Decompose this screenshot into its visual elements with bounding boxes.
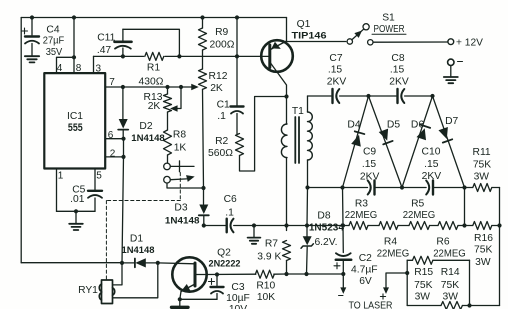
T1 primary lead top [286,97,288,125]
C3 polarity + [209,279,215,285]
svg-text:POWER: POWER [374,24,405,35]
svg-text:5: 5 [96,171,102,182]
diode D2 1N4148 [118,87,128,139]
svg-text:2KV: 2KV [360,172,380,183]
junction D3 top [201,186,205,190]
+12V terminal [448,39,454,45]
capacitor C2 [336,226,351,275]
label C2 value [351,264,378,275]
diode D7 [433,96,465,188]
svg-text:R4: R4 [384,236,397,247]
pin 3 stub [93,56,95,73]
ground below C5 [69,211,83,230]
transistor Q2 circle [172,257,206,291]
svg-text:.1: .1 [217,111,226,122]
svg-text:D1: D1 [130,234,143,245]
label C10 [422,147,441,158]
label D3 part [165,214,200,225]
svg-text:6V: 6V [359,276,372,287]
svg-text:1N4148: 1N4148 [165,214,200,225]
laser minus sign [339,295,344,297]
svg-text:22MEG: 22MEG [433,248,466,259]
label C9 value [362,159,377,170]
wire D5 node to C10 [402,187,426,189]
junction pin2 rail [121,155,125,159]
label R10 [256,281,275,292]
wire pin2 rail down [122,157,124,263]
wire D7 node down [464,188,466,226]
svg-text:T1: T1 [292,106,304,117]
svg-text:R3: R3 [355,198,368,209]
label C10 rating [422,171,442,182]
wire pin1-C5 bottom [57,210,96,212]
label D2 [139,121,152,132]
label R14 [441,267,460,278]
svg-text:200Ω: 200Ω [210,40,235,51]
svg-text:C7: C7 [329,53,342,64]
svg-text:8: 8 [76,63,82,74]
junction secondary bottom [305,185,309,189]
svg-text:D2: D2 [139,121,152,132]
svg-text:.01: .01 [70,194,85,205]
svg-text:.1: .1 [225,207,234,218]
wire rail corner to emitter node [286,18,288,42]
wire C3 bottom to emitter gnd [180,298,217,300]
label TO LASER [349,300,393,309]
T1 core [295,117,299,163]
Q1 emitter lead [271,41,287,52]
junction C1 rail [235,15,239,19]
label R1 [147,63,160,74]
pin 5 stub [94,169,96,191]
Q2 collector row [207,273,256,275]
svg-text:C2: C2 [359,253,372,264]
relay contact arm arrow [170,173,195,182]
svg-text:C1: C1 [217,99,230,110]
svg-text:1: 1 [58,171,64,182]
label C4 [46,24,59,35]
svg-text:2K: 2K [148,101,161,112]
svg-text:D7: D7 [445,116,458,127]
svg-text:75K: 75K [474,245,492,256]
Q2 base bar [194,263,197,286]
T1 secondary lead top [307,96,309,112]
junction box bottom right [467,303,471,307]
svg-text:2: 2 [110,149,116,160]
svg-text:R11: R11 [473,147,491,158]
wire D4 node down [342,188,345,226]
resistor R15 [407,256,469,264]
junction D8 top [305,223,309,227]
resistor R4 [379,222,409,230]
junction D3 bottom [202,223,206,227]
label POWER [374,24,405,35]
label D8 voltage [314,237,337,248]
capacitor C8 [398,89,405,103]
wire relay node to D1 [122,262,135,264]
label R1 value [139,77,164,88]
junction D8 bottom [304,272,308,276]
junction R9 top rail [200,15,204,19]
label R12 value [210,83,223,94]
svg-text:S1: S1 [382,13,395,24]
wire C9 to D5 node [375,187,402,189]
svg-text:.15: .15 [328,64,343,75]
svg-text:R7: R7 [265,238,278,249]
svg-text:3W: 3W [474,172,490,183]
svg-text:D3: D3 [174,202,187,213]
svg-text:IC1: IC1 [67,111,83,122]
svg-text:+ 12V: + 12V [456,37,483,48]
label D8 [317,210,330,221]
resistor R6 [438,222,465,230]
pin 4 label [57,63,63,74]
label R6 value [433,248,466,259]
svg-text:35V: 35V [46,47,63,58]
junction D2 top [121,85,125,89]
Q2 emitter ground [172,299,189,307]
label C8 value [390,64,405,75]
label D2 part [131,132,165,143]
switch S1 pole [347,39,352,44]
wire switch to +12V [373,41,447,43]
pin 2 stub [105,156,123,158]
wire left rail [20,18,22,263]
junction Q2 base node [156,261,160,265]
label R13 [144,92,163,103]
junction C4 top [30,15,34,19]
R15-R14 box right edge [469,260,471,305]
junction Q1 collector node [284,94,288,98]
label C4 value [43,35,65,46]
capacitor C10 [426,181,433,195]
svg-text:1K: 1K [174,143,187,154]
wire C6 to ground node [234,225,254,227]
wire R7node to D8 node [287,225,308,227]
label R11 value [473,159,491,170]
svg-text:R5: R5 [411,199,424,210]
capacitor C9 [368,181,375,195]
capacitor C11 [115,29,132,56]
label R2 [215,136,228,147]
wire R7node to D8 bottom [287,273,307,275]
capacitor C1 [231,107,244,135]
junction D4 bottom [340,185,344,189]
label R8 value [174,143,187,154]
relay contact upper pole [164,163,171,170]
svg-text:R14: R14 [441,267,460,278]
junction D7 bottom [462,185,466,189]
T1 primary winding [281,124,287,158]
svg-text:10µF: 10µF [226,293,250,304]
wire secondary node to D4 [308,187,343,189]
wire pin3 row right [165,55,261,57]
svg-text:1N5234: 1N5234 [309,223,344,234]
pin 6 label [108,130,114,141]
label R3 [355,198,368,209]
svg-text:.15: .15 [362,159,377,170]
label D4 [347,120,360,131]
label R13 value [148,101,161,112]
svg-text:R1: R1 [147,63,160,74]
potentiometer R12 [199,69,207,188]
T1 secondary lead bottom [307,160,309,188]
label R4 value [377,248,410,259]
label R5 value [403,210,436,221]
junction C11 bottom [121,54,125,58]
capacitor C4 [25,18,39,57]
junction D4-D5 top [366,94,370,98]
junction R13 top [165,85,169,89]
svg-text:C8: C8 [391,53,404,64]
svg-text:R15: R15 [414,267,433,278]
label C10 value [424,159,439,170]
svg-text:560Ω: 560Ω [208,148,233,159]
R12 wiper arrow [181,84,199,91]
pin 4 stub [57,57,75,73]
label R6 [436,236,449,247]
relay RY1 coil box [99,280,114,304]
label R5 [411,199,424,210]
T1 primary lead bottom [286,158,288,226]
label C2 voltage [359,276,372,287]
label Q1 part [292,31,327,42]
diode D4 [343,96,369,188]
switch S1 lever [352,28,365,40]
wire C11 loop top [123,29,179,56]
label C1 [217,99,230,110]
svg-text:3: 3 [96,64,102,75]
wire D8node to C2 bottom [307,273,344,275]
label R11 rating [474,172,490,183]
label C9 [363,147,376,158]
POWER underline [372,33,406,35]
wire laser minus lead [340,274,346,294]
svg-text:1N4148: 1N4148 [131,132,165,143]
wire secondary to C7 [308,95,332,97]
svg-text:22MEG: 22MEG [377,248,410,259]
svg-text:10V: 10V [229,304,247,309]
pin 7 label [109,77,115,88]
label C2 [359,253,372,264]
label C5 value [70,194,85,205]
junction D5-D6 bottom [400,185,404,189]
pin 5 label [96,171,102,182]
pin 8 label [76,63,82,74]
wire D4 node to C9 [343,187,368,189]
wire contact to D3 node [167,183,204,188]
wire right rail [499,188,501,306]
svg-text:Q1: Q1 [297,19,311,30]
label C9 rating [360,172,380,183]
label R15 value [414,280,432,291]
wire R10 to R7 node [274,273,287,275]
label Q2 part [209,259,241,270]
wire gnd node to R7 node [254,225,287,227]
ground below C4 [25,56,39,62]
label R8 [173,130,186,141]
label C11 [97,32,115,43]
junction R6-R16 [462,223,466,227]
wire D4node to C8 [369,95,397,97]
wire C1 from rail [236,18,238,106]
Q1 base lead [261,55,270,57]
wire bottom-left run to relay node [21,262,122,264]
label D7 [445,116,458,127]
svg-text:2N2222: 2N2222 [209,259,241,270]
svg-text:3.9 K: 3.9 K [257,251,281,262]
label R4 [384,236,397,247]
junction C11 loop right [177,54,181,58]
R13 wiper arrow [170,87,181,112]
switch S1 contact right [368,40,373,45]
svg-text:.15: .15 [424,159,439,170]
laser plus sign [380,294,385,299]
label R16 value [474,245,492,256]
wire pin6-pin2 rail [123,139,125,157]
relay contact lower pole [164,176,171,183]
svg-text:D6: D6 [411,120,424,131]
svg-text:RY1: RY1 [78,285,98,296]
label R7 value [257,251,281,262]
svg-text:4.7µF: 4.7µF [351,264,378,275]
junction C1 top row [235,54,239,58]
svg-text:27µF: 27µF [43,35,65,46]
junction R7 top [284,223,288,227]
resistor R3 [343,222,379,230]
svg-text:2KV: 2KV [389,76,409,87]
label IC1 [67,111,83,122]
pin 8 wire to rail [73,18,75,74]
svg-text:4: 4 [57,63,63,74]
svg-text:C11: C11 [97,32,115,43]
svg-text:R8: R8 [173,130,186,141]
junction C2 bottom [341,272,345,276]
pin 1 label [58,171,64,182]
ground below minus terminal [444,66,458,84]
label T1 [292,106,304,117]
diode D3 1N4148 [199,188,209,226]
Q2 base lead [158,262,195,265]
resistor R14 [407,302,469,309]
svg-text:.47: .47 [97,45,112,56]
diode D1 1N4148 [135,258,146,267]
label C7 value [328,64,343,75]
label D1 part [122,244,155,255]
C2 polarity + [334,263,340,269]
Q1 collector lead [271,63,287,97]
label R12 [209,71,228,82]
svg-text:430Ω: 430Ω [139,77,164,88]
label R16 rating [475,257,491,268]
label C3 voltage [229,304,247,309]
junction R7 bottom [284,272,288,276]
diode D6 [402,96,433,188]
label R15 rating [415,292,431,303]
wire pin7 row [105,86,181,88]
svg-text:R2: R2 [215,136,228,147]
label C5 [72,184,85,195]
svg-text:D4: D4 [347,120,360,131]
resistor R2 [236,134,244,156]
label R2 value [208,148,233,159]
label R9 value [210,40,235,51]
label D1 [130,234,143,245]
label C6 value [225,207,234,218]
junction relay node [120,261,124,265]
junction C2 top [341,223,345,227]
label D3 [174,202,187,213]
diode D5 [369,96,403,188]
Q2 emitter lead [179,284,195,299]
label R14 rating [442,292,458,303]
svg-text:TO LASER: TO LASER [349,300,393,309]
svg-text:C10: C10 [422,147,441,158]
transistor Q1 circle [261,40,293,72]
svg-text:TIP146: TIP146 [292,31,327,42]
label D6 [411,120,424,131]
wire C8 to D6 node [405,95,433,97]
label C7 [329,53,342,64]
svg-text:75K: 75K [441,280,459,291]
relay contact fixed line [170,161,194,172]
svg-text:2K: 2K [210,83,223,94]
svg-text:R16: R16 [474,233,493,244]
svg-text:D8: D8 [317,210,330,221]
label R11 [473,147,491,158]
capacitor C5 [88,191,102,212]
wire secondary node down [306,188,309,226]
label C3 [231,282,244,293]
capacitor C7 [333,89,340,103]
Q1 base bar [268,45,271,68]
junction Q2 emitter gnd [178,297,182,301]
pin 3 label [96,64,102,75]
resistor R1 [145,52,164,60]
label C4 voltage [46,47,63,58]
label C1 value [217,111,226,122]
wire C10 to D7 node [433,187,464,189]
svg-text:R12: R12 [209,71,228,82]
svg-text:3W: 3W [442,292,458,303]
svg-text:D5: D5 [387,120,400,131]
label C6 [224,194,237,205]
wire RY1 top terminal [113,263,122,285]
svg-text:6.2V.: 6.2V. [314,237,337,248]
junction C5 ground [74,209,78,213]
label C11 value [97,45,112,56]
label C3 value [226,293,250,304]
junction pin4-pin8 [72,55,76,59]
label S1 [382,13,395,24]
label +12V [456,37,483,48]
svg-text:6: 6 [108,130,114,141]
Q2 collector lead [195,274,207,276]
junction R13 wiper node [179,85,183,89]
minus terminal [448,59,463,65]
resistor R8 [164,130,172,163]
wire laser plus lead [383,273,407,294]
label R14 value [441,280,459,291]
svg-text:C4: C4 [46,24,59,35]
relay linkage dashed [106,173,180,281]
label Q1 [297,19,311,30]
label R15 [414,267,433,278]
label C7 rating [327,76,347,87]
C4 polarity + [22,28,28,34]
wire RY1 bottom terminal [113,263,158,298]
junction ground row [252,223,256,227]
